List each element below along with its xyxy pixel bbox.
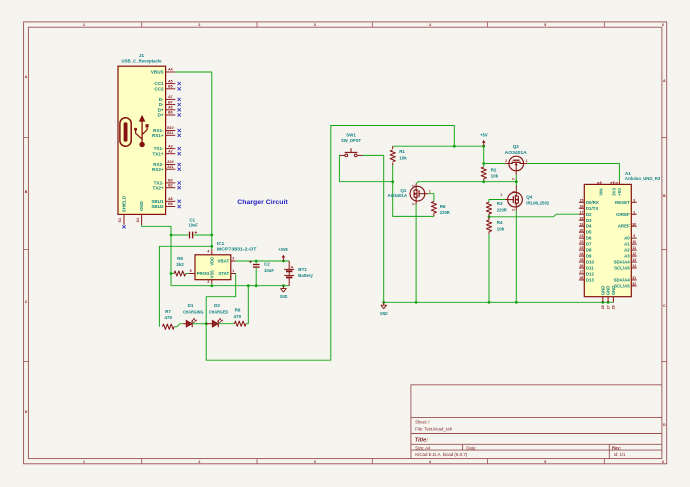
resistor R2 [481,167,486,179]
J1 pin A10 RX2- [166,164,176,166]
svg-text:Rev:: Rev: [612,445,621,450]
svg-text:D7: D7 [586,242,592,247]
A1 pin 2 IOREF [631,213,636,215]
wire Q2 drain down to node [515,175,517,186]
svg-text:IRLML2502: IRLML2502 [526,200,549,205]
wire SW1 right to GND [362,155,383,302]
svg-text:D10: D10 [586,260,595,265]
resistor R4 [488,217,490,220]
svg-text:B: B [25,190,28,194]
resistor R7 [163,324,175,329]
svg-text:SW1: SW1 [346,133,356,138]
junction C1 left [170,234,173,237]
junction gate node [391,180,394,183]
svg-text:5: 5 [615,182,619,184]
svg-text:VBUS: VBUS [151,70,164,75]
svg-text:Title:: Title: [415,437,428,443]
wire Q1 drain to GND rail [415,204,417,302]
svg-text:A3: A3 [624,254,630,259]
transistor Q4 IRLML2502 [508,192,523,207]
svg-text:GND: GND [611,286,616,296]
svg-text:PROG: PROG [197,271,211,276]
A1 pin 5 +5V [618,181,620,184]
svg-text:1: 1 [500,193,502,197]
svg-text:2: 2 [198,460,200,464]
svg-text:220R: 220R [440,210,451,215]
A1 pin 21 D6 [579,237,584,239]
svg-text:D9: D9 [586,254,592,259]
A1 pin 28 D13 [579,279,584,281]
svg-text:B5: B5 [168,85,173,89]
wire Q1 right to R6 [428,194,434,202]
J1 pin B8 SBU2 [166,206,176,208]
A1 pin 4 3V3 [613,181,615,184]
svg-text:22: 22 [579,240,583,244]
A1 pin 30 AREF [631,225,636,227]
svg-text:B10: B10 [167,126,173,130]
A1 pin 11 A2 [631,249,636,251]
A1 pin 19 D4 [579,225,584,227]
capacitor C1 [171,234,188,236]
svg-text:A7: A7 [168,95,173,99]
J1 pin A5 CC1 [166,83,176,85]
svg-text:6: 6 [662,23,664,27]
svg-text:B6: B6 [168,111,173,115]
svg-text:MCP73831-2-OT: MCP73831-2-OT [217,246,257,251]
Q2 pin 1 right [523,163,527,165]
svg-text:13: 13 [632,258,636,262]
svg-text:Size: A4: Size: A4 [415,445,431,450]
svg-text:2: 2 [207,280,209,284]
svg-text:D1/TX: D1/TX [586,206,599,211]
A1 pin 32 SCL/A5 [631,285,636,287]
svg-text:26: 26 [601,305,605,309]
Q2 pin 3 bottom [515,171,517,175]
A1 pin 23 D8 [579,249,584,251]
svg-text:R3: R3 [497,201,503,206]
svg-text:27: 27 [579,270,583,274]
svg-text:4: 4 [429,23,431,27]
svg-text:CHARGED: CHARGED [209,309,229,314]
svg-text:10k: 10k [399,156,407,161]
J1 pin B6 D+ [166,114,176,116]
Q1 pin 3 bottom [415,201,417,204]
svg-text:1: 1 [83,460,85,464]
svg-text:17: 17 [579,210,583,214]
svg-text:A6: A6 [168,106,173,110]
svg-text:SBU2: SBU2 [151,204,164,209]
svg-text:R1: R1 [399,149,405,154]
svg-text:5: 5 [190,269,192,273]
svg-text:KiCad E.D.A. kicad (6.0.7): KiCad E.D.A. kicad (6.0.7) [415,452,468,457]
svg-text:20: 20 [579,228,583,232]
svg-text:1: 1 [429,190,431,194]
svg-text:A1: A1 [136,218,140,223]
wire STAT to LEDs and +5V loop [206,126,454,361]
svg-text:29: 29 [612,305,616,309]
wire R3 junction to arduino D2 [489,214,579,217]
svg-text:B3: B3 [168,179,173,183]
svg-text:9: 9 [633,234,635,238]
junction LED mid [205,322,208,325]
svg-text:SDA/A4: SDA/A4 [614,260,631,265]
J1 pin A8 SBU1 [166,200,176,202]
wire VBAT rail [236,260,290,262]
svg-text:Q2: Q2 [513,144,520,149]
wire GND rail right [384,301,614,303]
svg-text:Q4: Q4 [526,195,533,200]
svg-text:RESET: RESET [615,200,630,205]
wire VDD branch to R7 [159,246,211,326]
J1 pin B7 D- [166,104,176,106]
junction R8 tap [170,272,173,275]
Q4 pin 1 left [505,199,509,201]
A1 pin 3 RESET [631,201,636,203]
capacitor C2 [255,261,257,263]
svg-text:2: 2 [412,185,416,187]
svg-text:10k: 10k [491,174,499,179]
svg-text:R8: R8 [177,256,183,261]
svg-text:SHIELD: SHIELD [122,196,127,212]
svg-text:Sheet: /: Sheet: / [415,420,430,425]
wire GND bottom rail left [171,285,289,287]
svg-text:A4: A4 [168,68,173,72]
svg-text:VDD: VDD [209,257,214,266]
Q4 pin 3 top [515,186,517,193]
frame column ticks top [141,22,143,27]
junction C2 bottom [255,284,258,287]
svg-text:A2: A2 [168,149,173,153]
svg-text:VIN: VIN [599,188,604,195]
svg-text:CC2: CC2 [154,86,164,91]
IC1 pin 2 VSS [211,280,213,284]
IC1 pin 4 VDD [211,249,213,255]
A1 pin 15 D0/RX [579,201,584,203]
svg-text:A0: A0 [624,236,630,241]
svg-text:SCL/A5: SCL/A5 [614,266,630,271]
svg-text:D11: D11 [586,266,594,271]
wire Q4 source to GND rail [515,210,517,302]
svg-text:B11: B11 [167,131,173,135]
A1 pin 27 GND [607,297,609,303]
A1 pin 13 SDA/A4 [631,261,636,263]
Q2 pin 2 left [505,163,509,165]
A1 pin 26 D11 [579,267,584,269]
A1 pin 26 GND [602,297,604,303]
J1 pin B3 TX2- [166,182,176,184]
svg-text:D3: D3 [586,218,592,223]
svg-text:D6: D6 [586,236,592,241]
svg-text:31: 31 [632,276,636,280]
svg-text:D13: D13 [586,277,595,282]
svg-text:VBAT: VBAT [218,259,230,264]
svg-text:23: 23 [579,246,583,250]
svg-text:D4: D4 [586,224,592,229]
svg-text:10uF: 10uF [189,222,198,227]
svg-text:AO3401A: AO3401A [505,150,528,155]
wire VBUS to C1/VDD vertical [175,72,212,249]
junction R4 on rail [488,301,491,304]
svg-text:4: 4 [207,249,209,253]
module A1 body [584,184,631,296]
svg-text:RX2+: RX2+ [152,167,164,172]
svg-text:STAT: STAT [218,271,229,276]
USB receptacle capsule icon [120,118,131,146]
wire Q1 gate line to Q2 drain [416,182,516,184]
svg-text:A10: A10 [167,160,173,164]
svg-text:GND: GND [606,286,611,296]
svg-text:B8: B8 [168,202,173,206]
resistor R3 [486,202,491,214]
svg-text:10: 10 [632,240,636,244]
svg-text:220R: 220R [497,208,508,213]
battery BT1 [288,261,290,269]
svg-text:R2: R2 [491,168,497,173]
svg-text:3V3: 3V3 [611,187,616,195]
svg-text:Id: 1/1: Id: 1/1 [614,452,626,457]
resistor R8 [171,273,174,275]
IC IC1 body [195,255,231,280]
junction VDD branch [210,245,213,248]
svg-text:C: C [663,304,666,308]
svg-text:File: Test.kicad_sch: File: Test.kicad_sch [415,426,453,431]
resistor R6 [431,202,436,214]
svg-text:RX1+: RX1+ [152,133,164,138]
svg-text:B: B [663,194,666,198]
connector J1 body [118,66,166,214]
svg-text:SDA/A4: SDA/A4 [614,277,631,282]
svg-text:Charger Circuit: Charger Circuit [237,199,288,206]
svg-text:C2: C2 [264,262,270,267]
no-connect x on SHIELD [122,225,125,228]
svg-text:AO3401A: AO3401A [388,193,408,198]
svg-text:2k2: 2k2 [176,262,184,267]
svg-text:R9: R9 [235,308,241,313]
svg-text:R6: R6 [440,204,446,209]
A1 pin 9 A0 [631,237,636,239]
svg-text:1: 1 [232,269,234,273]
LED D2 CHARGED [206,323,212,325]
svg-text:SW_DPST: SW_DPST [341,138,361,143]
svg-text:+5V: +5V [480,133,488,138]
J1 pin A2 TX1+ [166,153,176,155]
wire +5V to Q2 left [484,163,506,165]
svg-text:Date:: Date: [466,445,476,450]
svg-text:VSS: VSS [209,270,214,278]
svg-text:AREF: AREF [618,224,630,229]
J1 pin B10 RX1- [166,130,176,132]
svg-text:4: 4 [429,460,431,464]
svg-text:S1: S1 [118,218,122,223]
svg-text:A8: A8 [168,197,173,201]
junction Q1 on rail [415,301,418,304]
svg-text:27: 27 [606,305,610,309]
junction Q4 on rail [515,301,518,304]
resistor R1 [392,146,394,149]
svg-text:A1: A1 [624,242,630,247]
J1 pin B5 CC2 [166,88,176,90]
svg-text:IOREF: IOREF [616,212,630,217]
svg-text:32: 32 [632,282,636,286]
A1 pin 25 D10 [579,261,584,263]
A1 pin 10 A1 [631,243,636,245]
junction R9 on rail [247,284,250,287]
svg-text:3: 3 [232,257,234,261]
svg-text:16: 16 [579,204,583,208]
transistor Q2 AO3401A [509,156,524,171]
svg-text:A5: A5 [168,79,173,83]
J1 pin B2 TX2+ [166,187,176,189]
svg-text:3: 3 [512,191,516,193]
wire SW1 left to gate node [339,155,392,181]
J1 pin A4 VBUS [166,71,176,73]
svg-text:2: 2 [505,159,507,163]
svg-text:10uF: 10uF [264,268,274,273]
junction +3V8 [282,260,285,263]
frame row ticks right [662,137,667,139]
svg-text:21: 21 [579,234,583,238]
wire R9 to GND rail [246,286,248,324]
svg-text:1: 1 [526,159,528,163]
svg-text:D12: D12 [586,271,595,276]
IC1 pin 3 VBAT [231,260,236,262]
junction R3 R4 [488,215,491,218]
title block outline [411,385,662,459]
LED D1 CHARGING [183,323,186,325]
junction GND symbol battery [282,284,285,287]
svg-text:3: 3 [633,198,635,202]
svg-text:D: D [25,410,28,414]
svg-text:6: 6 [662,460,664,464]
USB trident icon [141,121,143,143]
svg-text:B7: B7 [168,100,173,104]
wire +5V horizontal [393,145,484,147]
J1 pin A1 GND [141,214,143,225]
A1 pin 12 A3 [631,255,636,257]
junction C2 top [255,260,258,263]
A1 pin 8 VIN [600,181,602,184]
svg-text:3: 3 [314,460,316,464]
ground symbol at battery [282,286,284,289]
A1 pin 17 D2 [579,213,584,215]
svg-text:R4: R4 [497,220,503,225]
power symbol +5V [483,143,485,147]
A1 pin 27 D12 [579,273,584,275]
svg-text:15: 15 [579,198,583,202]
svg-text:CHARGING: CHARGING [183,309,204,314]
svg-text:D5: D5 [586,230,592,235]
junction arduino GND 1 [601,301,604,304]
IC1 pin 5 PROG [189,273,195,275]
svg-text:5: 5 [544,23,546,27]
svg-text:A3: A3 [168,144,173,148]
svg-text:TX2+: TX2+ [152,185,163,190]
svg-text:GND: GND [280,294,288,299]
svg-text:Arduino_UNO_R3: Arduino_UNO_R3 [625,176,661,181]
svg-text:470: 470 [165,315,173,320]
switch SW1 [350,148,352,152]
J1 pin A6 D+ [166,109,176,111]
svg-text:D1: D1 [188,303,194,308]
svg-text:14: 14 [632,264,636,268]
svg-text:IC1: IC1 [217,241,225,246]
svg-text:26: 26 [579,264,583,268]
Q1 pin 2 top [415,184,417,187]
svg-text:J1: J1 [139,53,145,58]
svg-text:4: 4 [610,182,614,184]
wire Q2 right to arduino 5V [527,164,619,182]
junction arduino GND 2 [607,301,610,304]
A1 pin 14 SCL/A5 [631,267,636,269]
svg-text:GND: GND [380,311,388,316]
svg-text:+3V8: +3V8 [278,247,288,252]
wire +5V to R2 and Q2 source [483,146,485,166]
svg-text:R7: R7 [165,309,171,314]
A1 pin 29 GND [612,297,614,303]
A1 pin 22 D7 [579,243,584,245]
svg-text:C: C [25,300,28,304]
J1 pin S1 SHIELD [123,214,125,224]
wire R7 to D1 jog [174,324,183,327]
A1 pin 20 D5 [579,231,584,233]
ground symbol main [383,302,385,305]
svg-text:A2: A2 [624,248,630,253]
svg-text:8: 8 [597,182,601,184]
svg-text:24: 24 [579,252,583,256]
svg-text:2: 2 [511,209,515,211]
wire USB GND pin to C1 left [142,225,171,286]
svg-text:A11: A11 [167,165,173,169]
IC1 pin 1 STAT [231,273,236,275]
svg-text:25: 25 [579,258,583,262]
J1 pin A7 D- [166,98,176,100]
svg-text:11: 11 [632,246,636,250]
svg-text:B2: B2 [168,183,173,187]
svg-text:D8: D8 [586,248,592,253]
power symbol +3V8 [282,257,284,261]
junction C1 right [210,234,213,237]
A1 pin 31 SDA/A4 [631,279,636,281]
svg-text:D2: D2 [586,212,592,217]
junction +5V drop [453,145,456,148]
svg-text:D+: D+ [158,113,164,118]
svg-text:TX1+: TX1+ [152,151,163,156]
svg-text:D0/RX: D0/RX [586,200,599,205]
svg-text:GND: GND [139,201,144,211]
wire R4 to GND rail [488,234,490,302]
frame column ticks bottom [141,459,143,464]
svg-text:2: 2 [198,23,200,27]
svg-text:Battery: Battery [298,273,313,278]
svg-text:10k: 10k [497,226,505,231]
junction Q2 Q4 node [515,180,518,183]
svg-text:USB_C_Receptacle: USB_C_Receptacle [122,58,162,63]
frame row ticks left [24,137,29,139]
svg-text:30: 30 [632,222,636,226]
Q1 pin 1 right [425,193,429,195]
svg-text:3: 3 [314,23,316,27]
svg-text:5: 5 [544,460,546,464]
svg-text:SCL/A5: SCL/A5 [614,283,630,288]
J1 pin A3 TX1- [166,148,176,150]
svg-text:D2: D2 [214,303,220,308]
title block column dividers [462,444,464,450]
svg-text:BT1: BT1 [298,267,307,272]
junction VSS on rail [210,284,213,287]
svg-text:28: 28 [579,276,583,280]
Q4 pin 2 bottom [515,207,517,210]
resistor R9 [234,321,246,326]
